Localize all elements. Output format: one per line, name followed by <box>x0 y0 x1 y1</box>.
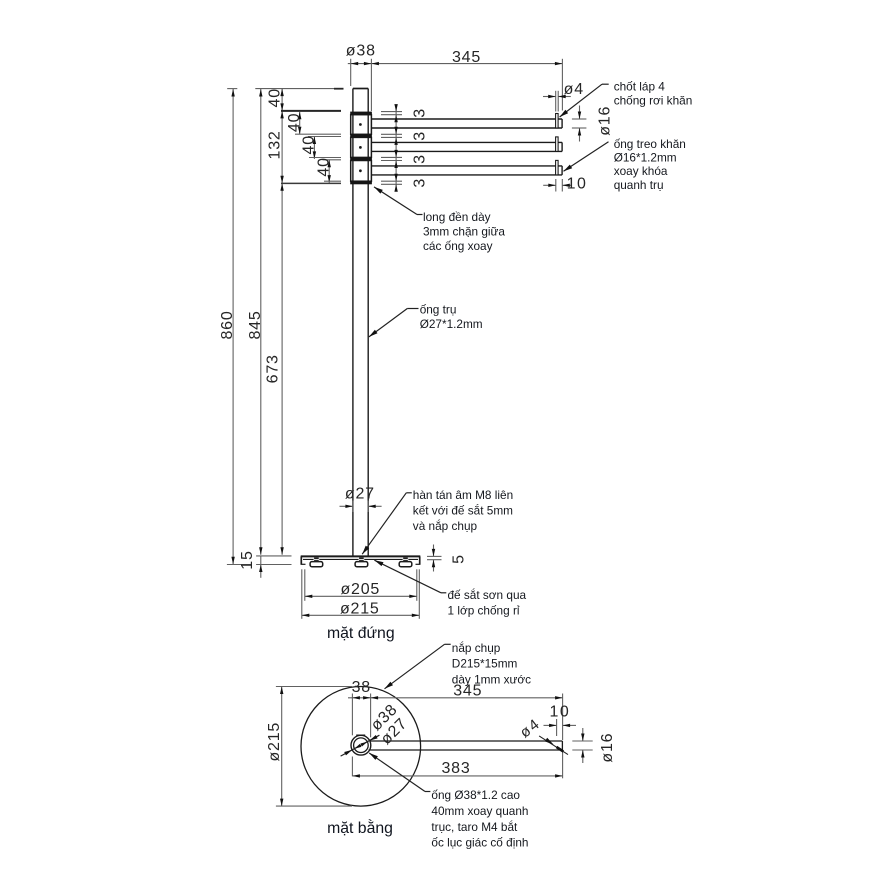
plan dimension Ø16 apparatus <box>572 728 592 763</box>
label ống trụ Ø27 <box>420 303 483 332</box>
dimension Ø4 extension lines <box>556 91 559 112</box>
leader hàn tán âm <box>362 493 412 554</box>
extension line arm end top <box>561 59 563 111</box>
svg-text:xoay khóa: xoay khóa <box>614 164 668 178</box>
plan dimension Ø215 extensions <box>276 687 352 807</box>
dimension Ø16 ticks and arrows <box>572 106 587 142</box>
svg-text:383: 383 <box>441 760 470 777</box>
washer 1 (long đền 3mm) <box>350 112 372 115</box>
dimension 860 line <box>231 89 234 564</box>
collar 3 center screw dot <box>359 170 361 172</box>
svg-text:Ø16*1.2mm: Ø16*1.2mm <box>614 151 677 165</box>
svg-text:kết với đế sắt 5mm: kết với đế sắt 5mm <box>413 503 513 517</box>
pole tube Ø27 (ống trụ) outline <box>353 89 368 557</box>
plan pole circle Ø27 <box>354 738 369 753</box>
plan dimension Ø38 text <box>368 701 401 734</box>
dimension 3mm washer apparatus <box>381 104 402 192</box>
leader ống treo khăn <box>564 142 609 172</box>
dimension 845 text <box>247 310 264 339</box>
pin Ø4 on arm 2 (chốt) <box>556 137 559 152</box>
dimension 40 #2 line <box>298 112 301 135</box>
collar 1 center screw dot <box>359 124 361 126</box>
svg-text:các ống xoay: các ống xoay <box>423 239 493 253</box>
dimension Ø205 line <box>305 595 417 598</box>
svg-text:345: 345 <box>452 49 481 66</box>
svg-text:860: 860 <box>219 310 236 339</box>
dimension 3 text at y159 <box>411 154 428 164</box>
svg-text:1 lớp chống rỉ: 1 lớp chống rỉ <box>448 604 520 618</box>
svg-text:845: 845 <box>247 310 264 339</box>
pin Ø4 on arm 3 (chốt) <box>556 160 559 175</box>
dimension 10 text <box>567 176 588 193</box>
dimension 40 #3 line <box>313 137 316 159</box>
leader chốt láp <box>560 84 609 117</box>
foot 1 under base <box>310 562 323 567</box>
dimension 345 line <box>371 62 562 65</box>
extension washer3 left <box>309 158 341 160</box>
plan dimension 38 line <box>348 696 371 699</box>
towel arm 1 tube Ø16 <box>371 119 562 128</box>
svg-text:40: 40 <box>301 135 318 154</box>
dimension 15 line and arrows <box>256 556 291 578</box>
dimension Ø205 text <box>340 581 380 598</box>
svg-text:132: 132 <box>267 130 284 159</box>
plan arm tube lines <box>369 741 563 750</box>
base cap right rim <box>416 556 421 564</box>
view title mặt đứng <box>327 625 395 642</box>
svg-text:nắp chụp: nắp chụp <box>452 641 501 655</box>
dimension Ø27 line <box>340 505 382 508</box>
extension washer2 left <box>295 134 341 136</box>
view title mặt bằng <box>327 818 393 837</box>
label ống treo khăn <box>614 137 686 192</box>
dimension 40 #1 line <box>280 89 283 111</box>
dimension Ø27 text <box>345 486 375 503</box>
leader long đền <box>374 187 423 215</box>
svg-text:mặt đứng: mặt đứng <box>327 625 395 642</box>
svg-text:ốc lục giác cố định: ốc lục giác cố định <box>431 836 528 850</box>
plan dimension 10 text <box>550 703 571 720</box>
svg-text:chốt láp 4: chốt láp 4 <box>614 80 666 94</box>
svg-text:ø16: ø16 <box>599 733 616 763</box>
dimension 345 text <box>452 49 481 66</box>
svg-text:673: 673 <box>264 354 281 383</box>
plan dimension Ø27 text <box>378 715 411 748</box>
plan collar circle Ø38 <box>351 735 371 755</box>
dimension 673 text <box>264 354 281 383</box>
svg-text:ø27: ø27 <box>345 486 375 503</box>
plan dimension Ø215 line <box>280 687 283 807</box>
dimension 40 #4 line <box>328 160 331 183</box>
svg-text:40: 40 <box>286 113 303 132</box>
svg-text:15: 15 <box>239 550 256 569</box>
svg-text:dày 1mm xước: dày 1mm xước <box>452 672 531 686</box>
plan dimension 38 text <box>352 679 371 696</box>
leader đế sắt <box>374 560 446 593</box>
dimension 15 text <box>239 550 256 569</box>
svg-text:chống rơi khăn: chống rơi khăn <box>614 93 693 107</box>
plan diameter leader diagonal <box>341 735 380 756</box>
dimension 3 text at y112 <box>411 108 428 118</box>
svg-text:10: 10 <box>567 176 588 193</box>
screw nut 3 on base plate <box>403 558 409 562</box>
svg-text:long đền dày: long đền dày <box>423 210 491 224</box>
dimension 845 line <box>259 89 262 555</box>
svg-text:Ø27*1.2mm: Ø27*1.2mm <box>420 317 483 331</box>
svg-text:ø38: ø38 <box>346 43 376 60</box>
label long đền dày <box>423 210 505 253</box>
extension washer1 top left <box>281 110 341 112</box>
label đế sắt sơn <box>448 588 527 617</box>
svg-text:ø16: ø16 <box>596 106 613 136</box>
dimension 40 #3 text <box>301 135 318 154</box>
plan dimension 10 line <box>544 724 577 727</box>
collar 2 center screw dot <box>359 146 361 148</box>
svg-text:ống Ø38*1.2 cao: ống Ø38*1.2 cao <box>431 788 520 802</box>
svg-text:3mm chặn giữa: 3mm chặn giữa <box>423 225 505 239</box>
dimension Ø38 text <box>346 43 376 60</box>
plan dimension 345 line <box>371 696 563 699</box>
leader nắp chụp <box>385 644 451 689</box>
washer 2 (long đền 3mm) <box>350 134 372 137</box>
dimension 5 text <box>450 554 467 564</box>
dimension Ø215 line <box>302 614 420 617</box>
dimension 3 text at y182 <box>411 178 428 188</box>
foot 3 under base <box>399 562 412 567</box>
dimension 860 text <box>219 310 236 339</box>
dimension Ø4 text <box>564 81 584 98</box>
dimension 40 #4 text <box>315 157 332 176</box>
dimension Ø16 text <box>596 106 613 136</box>
plan dimension Ø215 text <box>266 722 283 762</box>
screw nut 2 on base plate <box>359 558 365 562</box>
base cap left rim <box>301 556 306 564</box>
svg-text:đế sắt sơn qua: đế sắt sơn qua <box>448 588 527 602</box>
svg-text:trục, taro M4 bắt: trục, taro M4 bắt <box>431 820 518 834</box>
plan dimension 383 text <box>441 760 470 777</box>
dimension 3 text at y135 <box>411 131 428 141</box>
dimension 132 line <box>280 111 283 183</box>
screw nut 1 on base plate <box>314 558 320 562</box>
svg-text:D215*15mm: D215*15mm <box>452 657 518 671</box>
svg-text:40: 40 <box>315 157 332 176</box>
label nắp chụp <box>452 641 531 687</box>
svg-text:mặt bằng: mặt bằng <box>327 818 393 837</box>
svg-text:5: 5 <box>450 554 467 564</box>
foot 2 under base <box>355 562 368 567</box>
svg-text:hàn tán âm M8 liên: hàn tán âm M8 liên <box>413 488 513 502</box>
plan dimension 10 ticks <box>556 719 558 736</box>
dimension 40 #2 text <box>286 113 303 132</box>
towel arm 2 tube Ø16 <box>371 142 562 151</box>
svg-text:và nắp chụp: và nắp chụp <box>413 519 478 533</box>
svg-text:ống treo khăn: ống treo khăn <box>614 137 686 151</box>
plan dimension Ø16 text <box>599 733 616 763</box>
extension line at pole top <box>227 88 343 90</box>
svg-text:ø4: ø4 <box>564 81 584 98</box>
svg-text:40mm xoay quanh: 40mm xoay quanh <box>431 804 528 818</box>
dimension Ø38 line <box>348 62 372 65</box>
washer 3 (long đền 3mm) <box>350 157 372 160</box>
extension washer4 left <box>281 181 341 183</box>
svg-text:40: 40 <box>267 88 284 107</box>
plan dimension 383 line <box>352 774 562 777</box>
leader ống Ø38 <box>369 753 430 792</box>
dimension 860 bottom extension <box>227 564 252 566</box>
plan extension verticals <box>352 694 562 779</box>
washer 4 (long đền 3mm) <box>350 181 372 184</box>
label hàn tán âm M8 <box>413 488 513 533</box>
svg-text:10: 10 <box>550 703 571 720</box>
dimension Ø4 line <box>543 95 571 98</box>
dimension Ø27 ticks <box>353 501 368 512</box>
plan leader Ø4 and pin <box>539 736 568 755</box>
leader ống trụ <box>369 309 419 337</box>
dimension Ø38 extension lines <box>351 59 372 111</box>
extension line at base top <box>256 555 291 557</box>
steel base plate 5mm bottom line <box>303 558 418 560</box>
dimension 5 ticks <box>427 556 442 559</box>
svg-text:ø215: ø215 <box>340 600 380 617</box>
plan base circle Ø215 <box>301 687 421 807</box>
dimension 5 arrows <box>432 545 435 572</box>
svg-text:3: 3 <box>411 108 428 118</box>
extension lines base diameters <box>302 569 420 619</box>
dimension 673 line <box>280 183 283 555</box>
svg-text:ống trụ: ống trụ <box>420 303 457 317</box>
plan dimension 345 text <box>453 683 482 700</box>
pin Ø4 on arm 1 (chốt) <box>556 114 559 129</box>
plan small circle top dash <box>356 734 365 736</box>
label chốt láp 4 chống rơi khăn <box>614 80 693 108</box>
svg-text:3: 3 <box>411 131 428 141</box>
base cap top plate (nắp chụp) <box>301 555 421 557</box>
swivel collar 3 Ø38 <box>351 161 372 182</box>
plan dimension Ø4 text <box>517 715 544 742</box>
dimension 10 ticks <box>556 179 563 192</box>
svg-text:3: 3 <box>411 178 428 188</box>
dimension 40 #1 text <box>267 88 284 107</box>
svg-text:ø215: ø215 <box>266 722 283 762</box>
dimension 10 line <box>543 184 571 187</box>
swivel collar 1 Ø38 <box>351 115 372 135</box>
svg-text:3: 3 <box>411 154 428 164</box>
dimension 132 text <box>267 130 284 159</box>
label ống Ø38 cao 40mm <box>431 788 528 849</box>
dimension Ø215 text <box>340 600 380 617</box>
swivel collar 2 Ø38 <box>351 137 372 157</box>
svg-text:38: 38 <box>352 679 371 696</box>
towel arm 3 tube Ø16 <box>371 166 562 175</box>
svg-text:quanh trụ: quanh trụ <box>614 178 664 192</box>
svg-text:ø205: ø205 <box>340 581 380 598</box>
